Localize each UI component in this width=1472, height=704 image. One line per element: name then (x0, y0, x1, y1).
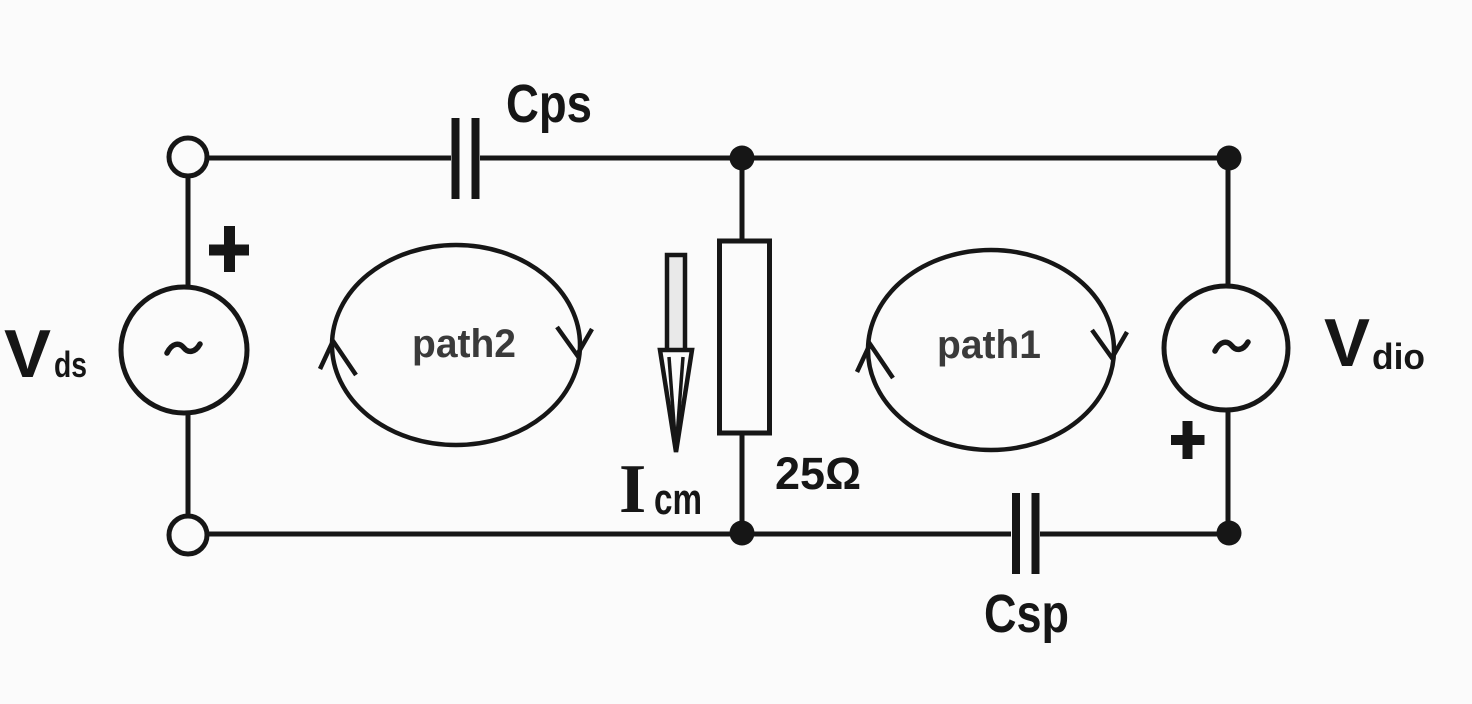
loop path1 (857, 250, 1127, 450)
junction node bottom-middle (730, 521, 755, 546)
svg-text:ds: ds (54, 344, 87, 385)
svg-text:Cps: Cps (506, 74, 592, 134)
svg-text:path2: path2 (412, 322, 516, 366)
capacitor Cps (456, 118, 476, 199)
svg-text:V: V (1324, 305, 1370, 381)
wire left column lower (186, 414, 191, 516)
junction node bottom-right (1217, 521, 1242, 546)
wire bottom rail left segment (208, 532, 1011, 537)
wire right column lower (1226, 410, 1231, 534)
svg-text:cm: cm (654, 475, 702, 524)
wire left column upper (186, 177, 191, 288)
capacitor Csp (1016, 493, 1036, 574)
wire middle branch lower (740, 431, 745, 534)
ac source Vdio (1164, 286, 1288, 410)
junction node top-middle (730, 146, 755, 171)
wire top rail right segment (480, 156, 1229, 161)
resistor 25ohm (720, 241, 770, 433)
wire middle branch upper (740, 158, 745, 243)
svg-text:Csp: Csp (984, 584, 1069, 644)
current arrow Icm (660, 255, 692, 452)
loop path2 (320, 245, 592, 445)
svg-text:25Ω: 25Ω (775, 448, 861, 499)
terminal bottom-left open circle (169, 516, 207, 554)
wire top rail left segment (206, 156, 451, 161)
svg-text:V: V (4, 316, 51, 392)
ac source Vds (121, 287, 247, 413)
svg-text:path1: path1 (937, 323, 1041, 367)
polarity plus of Vdio (1171, 421, 1205, 459)
polarity plus of Vds (209, 226, 249, 272)
svg-text:dio: dio (1372, 336, 1425, 377)
wire right column upper (1226, 158, 1231, 288)
terminal top-left open circle (169, 138, 207, 176)
svg-text:I: I (619, 451, 646, 528)
junction node top-right (1217, 146, 1242, 171)
wire bottom rail right segment (1040, 532, 1229, 537)
